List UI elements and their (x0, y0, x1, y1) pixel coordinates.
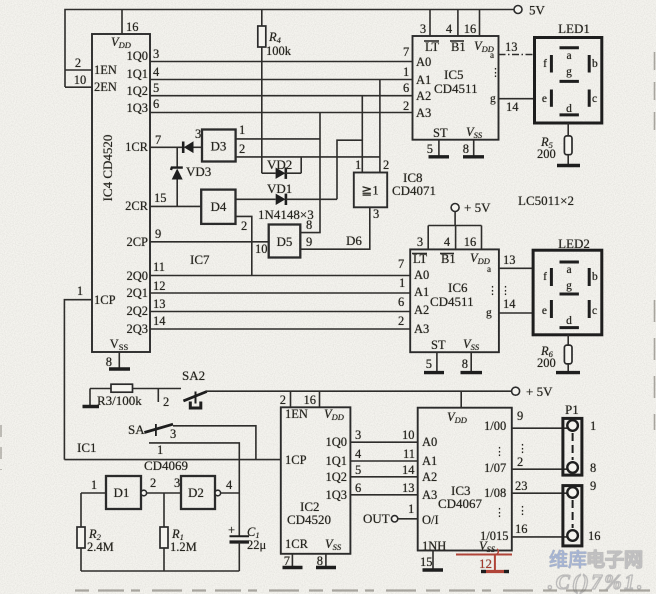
wire IC3 1/015 to P1-16 (pin16) (512, 536, 568, 538)
svg-text:1/07: 1/07 (484, 461, 506, 475)
svg-text:CD4067: CD4067 (438, 496, 483, 511)
wire D1 input (81, 492, 106, 494)
IC2 pin16 wire (319, 391, 321, 407)
svg-text:200: 200 (537, 356, 556, 370)
wire D5 pin8 up to 1Q3 (300, 113, 320, 233)
wire 1Q1 bus L2 (150, 79, 413, 81)
svg-text:A2: A2 (422, 470, 437, 484)
svg-text:23: 23 (515, 479, 528, 493)
svg-text:1/08: 1/08 (484, 486, 506, 500)
svg-text:2: 2 (150, 476, 156, 490)
svg-text:1CR: 1CR (285, 537, 309, 551)
svg-text:1Q3: 1Q3 (126, 101, 148, 115)
IC2 pin2 wire (290, 391, 292, 407)
svg-text:CD4511: CD4511 (430, 294, 474, 309)
wire IC5 a to LED1 (pin13) (499, 54, 535, 56)
inverter D2 (181, 476, 221, 509)
svg-text:d: d (566, 315, 572, 327)
IC2 pin7 ground (291, 554, 293, 568)
svg-text:A0: A0 (414, 268, 429, 282)
svg-text:8: 8 (590, 461, 596, 475)
svg-text:1: 1 (77, 284, 83, 298)
gate D4 (201, 190, 235, 224)
stub pin2 (157, 389, 159, 403)
svg-text:2Q1: 2Q1 (126, 286, 148, 300)
ground (R5) (557, 164, 580, 167)
svg-text:1Q2: 1Q2 (126, 84, 148, 98)
IC5 pin4 wire (457, 10, 459, 37)
svg-text:1/00: 1/00 (484, 419, 506, 433)
IC5 pin8 ground (473, 140, 475, 157)
svg-text:1: 1 (408, 502, 414, 516)
svg-text:IC1: IC1 (77, 440, 97, 455)
svg-text:100k: 100k (266, 44, 292, 58)
svg-text:3: 3 (355, 428, 361, 442)
svg-text:A0: A0 (422, 435, 437, 449)
svg-text:c: c (592, 93, 597, 105)
svg-text:2.4M: 2.4M (87, 540, 114, 554)
svg-text:e: e (542, 93, 547, 105)
switch SA2 (182, 368, 207, 408)
wire 1CR pin7 (150, 146, 183, 148)
svg-text:13: 13 (503, 253, 516, 267)
wire IC3 1/00 to P1-1 (pin9) (512, 427, 568, 429)
svg-text:A3: A3 (414, 322, 429, 336)
svg-text:a: a (566, 50, 571, 62)
svg-text:14: 14 (503, 297, 516, 311)
LED2 display (533, 236, 602, 335)
gate D5 (269, 225, 301, 258)
svg-text:f: f (543, 271, 547, 283)
svg-text:6: 6 (403, 81, 409, 95)
svg-text:2: 2 (398, 314, 404, 328)
wire IC3 1/08 to P1-9 (pin23) (512, 492, 568, 494)
svg-text:2: 2 (403, 99, 409, 113)
svg-text:VD2: VD2 (267, 157, 292, 172)
svg-text:5: 5 (426, 357, 432, 371)
svg-text:10: 10 (402, 428, 415, 442)
svg-text:4: 4 (153, 65, 160, 79)
svg-text:2EN: 2EN (94, 80, 117, 94)
svg-text:D6: D6 (346, 233, 362, 248)
wire IC2 1Q1 to IC3 A1 (350, 460, 417, 462)
svg-text:g: g (490, 93, 496, 105)
svg-text:CD4069: CD4069 (144, 458, 188, 473)
svg-text:⋮: ⋮ (500, 285, 511, 297)
svg-text:b: b (592, 58, 598, 70)
svg-text:5: 5 (427, 142, 433, 156)
ground (R6) (556, 371, 580, 374)
watermark (548, 548, 645, 594)
svg-text:1CP: 1CP (94, 293, 116, 307)
svg-text:D3: D3 (211, 139, 227, 154)
svg-text:16: 16 (588, 529, 601, 543)
wire SA contact 3 to D2 output (149, 443, 239, 536)
svg-text:2Q3: 2Q3 (126, 322, 148, 336)
svg-text:+ 5V: + 5V (464, 200, 491, 215)
svg-text:A1: A1 (422, 454, 437, 468)
or-gate IC8 CD4071 (354, 173, 387, 208)
wire 1Q2 bus L3 (150, 95, 413, 97)
svg-text:1: 1 (239, 123, 245, 137)
svg-text:⋮: ⋮ (487, 285, 498, 297)
svg-text:g: g (566, 66, 572, 78)
connector P1 lower (563, 479, 601, 546)
svg-text:1Q0: 1Q0 (325, 435, 347, 449)
wire D5 pin9 / D6 to IC8 pin3 (300, 207, 370, 249)
svg-text:⋮: ⋮ (517, 505, 528, 517)
svg-text:IC7: IC7 (190, 252, 210, 267)
svg-text:LED1: LED1 (558, 21, 590, 36)
svg-text:e: e (542, 305, 547, 317)
svg-text:g: g (566, 280, 572, 292)
wire IC8 pin1 from 1Q2 (361, 96, 363, 173)
svg-text:2: 2 (163, 395, 169, 409)
svg-text:14: 14 (153, 314, 166, 328)
svg-text:14: 14 (506, 100, 519, 114)
svg-text:1Q1: 1Q1 (126, 67, 148, 81)
svg-text:D1: D1 (114, 485, 130, 500)
svg-text:2CP: 2CP (126, 235, 148, 249)
IC6 CD4511 (410, 249, 511, 352)
svg-text:1CP: 1CP (285, 453, 307, 467)
svg-text:SA: SA (128, 422, 145, 437)
wire 2Q0 bus (150, 275, 410, 277)
svg-text:2: 2 (75, 56, 81, 70)
wire 2CP pin9 to D5 pin10 (150, 241, 269, 243)
svg-text:1: 1 (403, 65, 409, 79)
svg-text:1Q0: 1Q0 (126, 49, 148, 63)
+5V rail (bottom) (206, 390, 512, 392)
svg-text:⋮: ⋮ (490, 67, 501, 79)
wire 2CR pin15 (150, 205, 201, 207)
IC2 pin8 ground (325, 554, 327, 568)
ground (R3) (89, 389, 91, 407)
svg-text:9: 9 (306, 235, 312, 249)
resistor R1 (160, 493, 197, 571)
svg-text:6: 6 (398, 295, 404, 309)
gate D3 (202, 130, 236, 162)
svg-text:f: f (543, 58, 547, 70)
svg-text:14: 14 (402, 463, 415, 477)
svg-text:2Q0: 2Q0 (126, 269, 148, 283)
IC5 pin16 wire (479, 10, 481, 37)
svg-text:⋮: ⋮ (494, 507, 505, 519)
OUT terminal (363, 502, 418, 526)
wire 2EN pin10 (65, 86, 92, 88)
wire D4 pin2 down (236, 216, 252, 275)
svg-text:3: 3 (420, 22, 426, 36)
svg-text:VD3: VD3 (186, 164, 211, 179)
svg-text:g: g (486, 307, 492, 319)
svg-text:12: 12 (153, 279, 166, 293)
resistor R3 (90, 384, 181, 408)
wire IC3 1/07 to P1-8 (pin2) (512, 468, 568, 470)
wire 1Q3 bus L4 (150, 112, 413, 114)
IC5 pin3 wire (429, 10, 431, 37)
capacitor C1 (228, 523, 267, 571)
svg-text:a: a (566, 264, 571, 276)
svg-text:11: 11 (153, 260, 165, 274)
svg-text:9: 9 (590, 479, 596, 493)
IC6 pin3 wire (427, 226, 429, 250)
svg-text:2CR: 2CR (125, 199, 149, 213)
wire 1EN pin2 (65, 69, 92, 71)
svg-text:2: 2 (239, 142, 245, 156)
resistor R4 (258, 10, 292, 174)
svg-text:D4: D4 (211, 199, 227, 214)
svg-text:P1: P1 (565, 402, 579, 417)
svg-text:CD4511: CD4511 (434, 81, 478, 96)
svg-text:8: 8 (106, 355, 112, 369)
svg-text:3: 3 (373, 207, 379, 221)
svg-text:A1: A1 (414, 285, 429, 299)
wire 2Q2 bus (150, 311, 410, 313)
wire IC2 1Q3 to IC3 A3 (350, 494, 417, 496)
svg-text:IC5: IC5 (444, 67, 464, 82)
IC4 CD4520 (92, 34, 150, 352)
svg-text:200: 200 (537, 147, 556, 161)
pin 16 wire (121, 10, 123, 35)
svg-text:1: 1 (590, 419, 596, 433)
svg-text:4: 4 (226, 478, 233, 492)
svg-text:D2: D2 (188, 485, 204, 500)
svg-text:CD4520: CD4520 (287, 512, 331, 527)
wire IC1 left vertical + 1CP pin1 (64, 300, 92, 460)
svg-text:10: 10 (74, 73, 87, 87)
svg-text:IC4 CD4520: IC4 CD4520 (100, 135, 115, 202)
svg-text:16: 16 (515, 522, 528, 536)
svg-text:R3/100k: R3/100k (97, 393, 142, 408)
svg-text:2Q2: 2Q2 (126, 304, 148, 318)
svg-text:22μ: 22μ (247, 538, 267, 552)
svg-text:1Q3: 1Q3 (325, 488, 347, 502)
svg-text:6: 6 (355, 481, 361, 495)
svg-text:CD4071: CD4071 (392, 183, 436, 198)
wire IC2 1Q2 to IC3 A2 (350, 476, 417, 478)
svg-text:1NH: 1NH (422, 539, 446, 553)
resistor R2 (77, 493, 114, 571)
wire 1Q0 bus L1 (150, 61, 413, 63)
svg-text:1EN: 1EN (285, 407, 308, 421)
svg-text:A1: A1 (416, 73, 431, 87)
svg-text:15: 15 (420, 555, 433, 569)
svg-text:3: 3 (174, 476, 180, 490)
svg-text:3: 3 (170, 427, 176, 441)
diode at D3 input (cathode left) (183, 141, 202, 153)
wire D1 out to D2 in (147, 492, 181, 494)
svg-text:A2: A2 (416, 89, 431, 103)
wire SA common to 1CP line (173, 426, 256, 460)
svg-text:1: 1 (91, 478, 97, 492)
svg-text:⋮: ⋮ (517, 443, 528, 455)
svg-text:≧1: ≧1 (361, 183, 378, 198)
svg-text:+ 5V: + 5V (526, 384, 553, 399)
svg-text:LT: LT (425, 40, 439, 54)
svg-text:b: b (592, 271, 598, 283)
svg-text:2: 2 (517, 455, 523, 469)
svg-text:13: 13 (505, 40, 518, 54)
svg-text:15: 15 (154, 191, 167, 205)
svg-text:ST: ST (431, 338, 446, 352)
wire VD1 to IC8 pin1 (337, 140, 362, 199)
connector P1 upper (563, 402, 596, 475)
+5V terminal (bottom) (512, 384, 553, 399)
wire D3 pin2 (236, 156, 380, 158)
wire IC6 a to LED2 (pin13) (499, 267, 533, 269)
svg-text:11: 11 (403, 447, 415, 461)
svg-text:⋮: ⋮ (494, 446, 505, 458)
svg-text:12: 12 (479, 556, 492, 571)
svg-text:B1: B1 (451, 40, 466, 54)
svg-text:维库: 维库 (549, 548, 587, 571)
svg-text:2: 2 (280, 393, 286, 407)
svg-text:16: 16 (464, 235, 477, 249)
switch SA (128, 422, 173, 437)
resistor R5 (537, 123, 572, 166)
IC6 pin4 wire (455, 226, 457, 250)
svg-text:O/I: O/I (422, 513, 439, 527)
diode VD1 (236, 181, 338, 205)
resistor R6 (537, 335, 572, 373)
pin 8 wire + ground (118, 352, 120, 369)
svg-text:1EN: 1EN (94, 63, 117, 77)
svg-text:a: a (487, 264, 491, 274)
wire 2Q1 bus (150, 292, 410, 294)
wire IC6 g to LED2 (pin14) (499, 312, 533, 314)
svg-text:A0: A0 (416, 55, 431, 69)
+5V terminal (middle) (451, 200, 491, 226)
IC6 pin5 ground (436, 352, 438, 372)
svg-text:1Q2: 1Q2 (325, 470, 347, 484)
inverter D1 (106, 476, 147, 509)
svg-text:A3: A3 (422, 488, 437, 502)
wire IC2 1Q0 to IC3 A0 (350, 441, 417, 443)
svg-text:1: 1 (355, 158, 361, 172)
5V terminal (514, 3, 546, 18)
LED1 display (535, 21, 602, 123)
svg-text:3: 3 (153, 47, 159, 61)
svg-text:1CR: 1CR (125, 140, 149, 154)
svg-text:9: 9 (517, 409, 523, 423)
IC5 pin5 ground (438, 140, 440, 157)
svg-text:D5: D5 (277, 234, 293, 249)
svg-text:A2: A2 (414, 303, 429, 317)
5V rail (top) (65, 10, 517, 88)
diode VD3 (zener, pointing up) (171, 147, 211, 206)
svg-text:VD1: VD1 (267, 181, 292, 196)
wire D2 output (221, 492, 240, 494)
wire IC5 g to LED1 (pin14) (499, 98, 535, 100)
IC3 VDD wire (460, 391, 462, 408)
svg-text:LC5011×2: LC5011×2 (518, 193, 574, 208)
svg-text:4: 4 (444, 235, 451, 249)
svg-text:13: 13 (402, 481, 415, 495)
wire oscillator bottom (81, 570, 239, 572)
svg-text:+: + (228, 523, 235, 537)
svg-text:d: d (566, 103, 572, 115)
svg-text:5V: 5V (529, 3, 546, 18)
svg-text:2: 2 (241, 219, 247, 233)
svg-text:13: 13 (153, 297, 166, 311)
svg-text:4: 4 (446, 22, 453, 36)
svg-text:7: 7 (403, 45, 409, 59)
svg-text:a: a (490, 50, 494, 60)
IC6 pin bus wire (428, 225, 481, 227)
svg-text:7: 7 (155, 133, 161, 147)
svg-text:电子网: 电子网 (586, 548, 643, 571)
svg-text:c: c (592, 305, 597, 317)
svg-text:2: 2 (383, 158, 389, 172)
svg-text:A3: A3 (416, 106, 431, 120)
svg-text:10: 10 (255, 242, 268, 256)
svg-text:5: 5 (153, 81, 159, 95)
diode VD2 (262, 157, 301, 179)
svg-text:9: 9 (155, 227, 161, 241)
svg-text:1Q1: 1Q1 (325, 454, 347, 468)
svg-text:4: 4 (355, 447, 362, 461)
svg-text:16: 16 (464, 22, 477, 36)
wire 1CP clock line to IC2 (64, 459, 280, 461)
svg-text:IC6: IC6 (448, 280, 468, 295)
wire IC8 pin2 from 1Q1 (379, 80, 381, 173)
IC6 pin16 wire (481, 226, 483, 250)
svg-text:1: 1 (157, 443, 163, 457)
svg-text:8: 8 (463, 142, 469, 156)
ground (IC4 pin8) (109, 367, 130, 370)
IC6 pin8 ground (470, 352, 472, 372)
svg-text:3: 3 (195, 127, 201, 141)
IC2 CD4520 (281, 407, 351, 554)
svg-text:OUT: OUT (363, 511, 390, 526)
wire 2Q3 bus (150, 328, 410, 330)
IC3 CD4067 (418, 408, 512, 554)
svg-text:16: 16 (304, 393, 317, 407)
svg-text:6: 6 (153, 97, 159, 111)
svg-text:16: 16 (126, 20, 139, 34)
svg-text:3: 3 (417, 235, 423, 249)
IC5 CD4511 (413, 36, 502, 140)
wire D3 pin1 (236, 138, 320, 140)
svg-text:1: 1 (399, 276, 405, 290)
svg-text:SA2: SA2 (182, 368, 205, 383)
svg-text:8: 8 (306, 218, 312, 232)
svg-text:8: 8 (462, 357, 468, 371)
svg-text:5: 5 (355, 463, 361, 477)
svg-text:7: 7 (398, 257, 404, 271)
IC3 pin15 ground (432, 551, 434, 571)
svg-text:ST: ST (433, 126, 448, 140)
red VSS pin12 markup (456, 549, 512, 572)
svg-text:1.2M: 1.2M (170, 540, 197, 554)
